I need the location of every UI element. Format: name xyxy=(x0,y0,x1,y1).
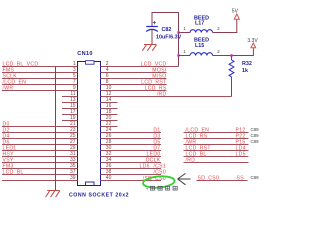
svg-text:LD5: LD5 xyxy=(236,151,246,157)
wire net D3 from pin 26 xyxy=(101,138,162,140)
wire net LCD_VCD from pin 2 xyxy=(101,66,179,68)
wire stub pin 18 xyxy=(101,114,118,116)
wire net DCLK from pin 34 xyxy=(101,162,162,164)
wire stub pin 22 xyxy=(101,126,118,128)
svg-text:C89: C89 xyxy=(251,139,260,144)
resistor R32 xyxy=(229,56,234,97)
mapping row /RD xyxy=(184,157,249,163)
svg-text:/RD: /RD xyxy=(186,157,196,163)
wire net SCLK to pin 5 xyxy=(2,78,78,80)
svg-text:5V: 5V xyxy=(232,8,239,14)
capacitor C82 symbol xyxy=(146,27,158,32)
mapping row LCD_RST xyxy=(184,145,249,151)
wire net FMS to pin 3 xyxy=(2,72,78,74)
wire net LCD_BL_VCD to pin 1 xyxy=(2,66,78,68)
wire stub pin 15 xyxy=(62,108,78,110)
wire net D5 from pin 28 xyxy=(101,144,162,146)
junction node at L17 input xyxy=(177,31,179,33)
wire net VSY to pin 33 xyxy=(2,162,78,164)
wire net HSY to pin 31 xyxy=(2,156,78,158)
mapping row SD_CS0 xyxy=(197,175,260,181)
svg-text:L17: L17 xyxy=(195,21,204,27)
svg-text:SS: SS xyxy=(237,175,245,181)
mapping row LCD_RS xyxy=(184,133,260,139)
wire net LCD_BL to pin 37 xyxy=(2,174,78,176)
junction node at R32 top xyxy=(230,54,232,56)
inductor L15 coil xyxy=(190,53,213,56)
power symbol 3.3V arrow xyxy=(251,43,256,48)
wire stub pin 14 xyxy=(101,102,118,104)
wire net /SD_CS0 from pin 40 xyxy=(101,180,162,182)
connector CN10 body xyxy=(78,61,101,186)
svg-text:C82: C82 xyxy=(162,27,172,33)
wire stub pin 11 xyxy=(62,96,78,98)
wire net D4 to pin 25 xyxy=(2,138,78,140)
svg-text:LCD_BL: LCD_BL xyxy=(3,169,24,175)
junction node at L15 input xyxy=(177,54,179,56)
wire net /WR to pin 9 xyxy=(2,90,78,92)
svg-text:C89: C89 xyxy=(251,175,260,180)
wire C82 bottom lead xyxy=(151,30,153,44)
svg-text:C89: C89 xyxy=(251,127,260,132)
ground below C82 xyxy=(142,45,156,51)
wire rail to L17 pin1 xyxy=(179,32,191,34)
svg-text:/WR: /WR xyxy=(3,85,14,91)
wire L15 pin2 to 3.3V xyxy=(213,48,254,56)
svg-text:CN10: CN10 xyxy=(77,51,93,57)
svg-text:3.3V: 3.3V xyxy=(247,38,258,44)
power symbol 5V arrow xyxy=(234,14,239,19)
svg-text:SD_CS0: SD_CS0 xyxy=(198,175,220,181)
wire stub pin 17 xyxy=(62,114,78,116)
capacitor C82 polarity + xyxy=(153,21,156,24)
svg-text:L15: L15 xyxy=(195,43,204,49)
wire net D0 to pin 21 xyxy=(2,126,78,128)
wire net LED0 from pin 32 xyxy=(101,156,162,158)
svg-text:10uF/6.3V: 10uF/6.3V xyxy=(156,34,182,40)
wire stub pin 13 xyxy=(62,102,78,104)
wire pin 39 row (unlabeled) xyxy=(2,180,78,182)
wire net MOSI from pin 4 xyxy=(101,72,167,74)
svg-text:1k: 1k xyxy=(242,68,248,74)
wire top from C82 to power rail xyxy=(152,13,179,67)
tiny annotation note xyxy=(147,186,178,190)
highlight ellipse around /SD_CS0 xyxy=(143,175,175,189)
wire net LED1 to pin 29 xyxy=(2,150,78,152)
wire net MISO from pin 6 xyxy=(101,78,167,80)
wire net /CS1 from pin 36 xyxy=(101,168,162,170)
ground (left bottom) xyxy=(46,191,60,198)
wire net D1 from pin 24 xyxy=(101,132,162,134)
wire net FM3 to pin 35 xyxy=(2,168,78,170)
wire net /LCD_EN to pin 7 xyxy=(2,84,78,86)
svg-text:LD6: LD6 xyxy=(140,163,150,169)
mapping row /WR xyxy=(184,139,260,145)
wire rail to L15 pin1 xyxy=(179,55,191,57)
wire stub pin 20 xyxy=(101,120,118,122)
svg-text:R32: R32 xyxy=(242,61,252,67)
wire L17 pin2 to 5V xyxy=(213,19,237,32)
mapping row /LCD_EN xyxy=(184,127,260,133)
wire net /CS0 from pin 38 xyxy=(101,174,162,176)
wire net D6 to pin 27 xyxy=(2,144,78,146)
wire net /RD from pin 12 xyxy=(101,96,232,98)
wire stub pin 16 xyxy=(101,108,118,110)
wire vertical to ground (left) xyxy=(55,67,57,191)
wire net LCD_RS from pin 10 xyxy=(101,90,167,92)
inductor L17 coil xyxy=(190,30,213,33)
mapping row LCD_BL xyxy=(184,151,249,157)
annotation arrow pointing to /SD_CS0 xyxy=(178,173,191,184)
svg-text:C89: C89 xyxy=(251,133,260,138)
svg-text:/RD: /RD xyxy=(157,91,167,97)
wire stub pin 19 xyxy=(62,120,78,122)
wire net LCD_RST from pin 8 xyxy=(101,84,167,86)
svg-text:/CS0: /CS0 xyxy=(153,169,166,175)
wire net D2 to pin 23 xyxy=(2,132,78,134)
svg-text:CONN SOCKET 20x2: CONN SOCKET 20x2 xyxy=(69,192,129,198)
wire net D7 from pin 30 xyxy=(101,150,162,152)
